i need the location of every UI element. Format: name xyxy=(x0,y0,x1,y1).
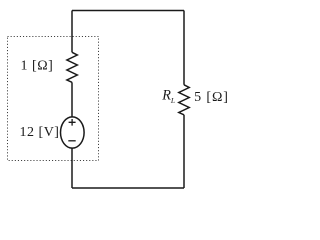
wire left middle xyxy=(71,82,73,117)
wire top xyxy=(72,10,184,12)
resistor 1 Ohm xyxy=(67,52,77,82)
minus terminal xyxy=(68,140,75,142)
wire right lower xyxy=(183,115,185,188)
wire right upper xyxy=(183,11,185,85)
plus terminal xyxy=(69,119,76,126)
voltage source V1 xyxy=(61,117,85,148)
svg-text:12 [V]: 12 [V] xyxy=(20,125,60,140)
wire bottom xyxy=(72,187,184,189)
svg-text:1 [Ω]: 1 [Ω] xyxy=(21,59,54,74)
wire left upper xyxy=(71,11,73,53)
svg-text:5 [Ω]: 5 [Ω] xyxy=(194,90,229,105)
resistor RL xyxy=(179,85,189,115)
wire left lower xyxy=(71,148,73,188)
dashed source box xyxy=(8,37,99,161)
